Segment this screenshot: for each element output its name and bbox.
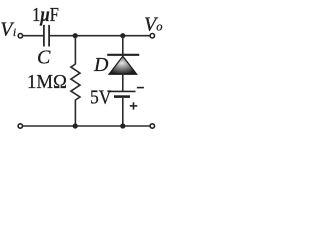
battery B1 top plate (long) — [108, 90, 136, 92]
battery plus sign — [130, 102, 138, 109]
bottom rail wire — [23, 125, 150, 127]
wire node B down to diode cathode bar — [122, 36, 124, 55]
wire capacitor to Vo terminal (top rail) — [50, 35, 150, 37]
svg-text:1MΩ: 1MΩ — [27, 71, 67, 93]
node junction dot D (battery bottom) — [120, 123, 125, 128]
wire Vi terminal to capacitor — [23, 35, 43, 37]
svg-text:C: C — [37, 47, 51, 69]
svg-text:1μF: 1μF — [32, 4, 59, 26]
terminal bottom-left (open circle) — [18, 124, 22, 128]
capacitor C1 (1uF) plates — [44, 25, 49, 47]
battery minus sign — [137, 87, 144, 89]
battery B1 bottom plate (short, thick) — [114, 95, 130, 98]
terminal Vo (output, open circle) — [150, 34, 154, 38]
svg-text:D: D — [93, 54, 109, 76]
wire battery to bottom rail — [122, 98, 124, 126]
terminal Vi (input, open circle) — [18, 34, 22, 38]
node junction dot B (diode top) — [120, 33, 125, 38]
diode D cathode bar — [107, 54, 139, 56]
terminal bottom-right (open circle) — [150, 124, 154, 128]
node junction dot C (resistor bottom) — [73, 123, 78, 128]
diode D triangle (anode, shaded) — [109, 56, 137, 74]
wire diode anode to battery top plate — [122, 75, 124, 92]
svg-text:5V: 5V — [90, 86, 112, 108]
resistor R1 (1 Mohm) zigzag — [71, 36, 80, 126]
node junction dot A (resistor top) — [73, 33, 78, 38]
